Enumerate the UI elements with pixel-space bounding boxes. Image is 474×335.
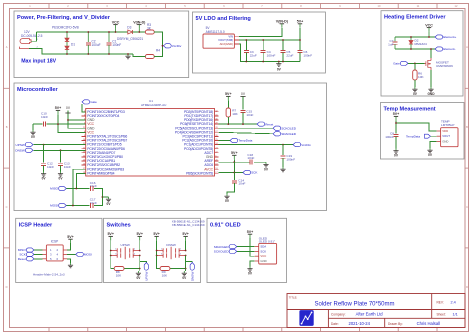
switch DNSW (156, 243, 187, 259)
svg-text:B: B (466, 125, 468, 129)
svg-text:10nF: 10nF (47, 165, 54, 169)
section 0.91" OLED (207, 218, 287, 282)
junction C2 bottom (87, 53, 89, 55)
resistor R6 10K (413, 63, 425, 80)
section Temp Measurement (381, 103, 465, 160)
svg-text:V(IN-D): V(IN-D) (276, 20, 289, 24)
net flag UPSW vertical (140, 262, 149, 281)
junction gnd (127, 53, 129, 55)
sensor U3 TEMP LMT85LP (437, 120, 458, 147)
svg-text:100uF: 100uF (92, 43, 101, 47)
svg-text:10nF: 10nF (238, 182, 245, 186)
capacitor C3 22uF (244, 40, 257, 62)
svg-text:B: B (6, 125, 8, 129)
svg-text:SCK: SCK (260, 249, 266, 253)
junction C1 bottom (108, 53, 110, 55)
power flag 5V+ temp (393, 112, 400, 133)
power flag VCC (112, 20, 120, 32)
net flag MISO (59, 186, 67, 190)
svg-text:0.91" OLED: 0.91" OLED (210, 222, 241, 228)
junction c19 (282, 144, 284, 146)
svg-text:SDA: SDA (260, 245, 266, 249)
svg-text:MM1Z24: MM1Z24 (415, 42, 427, 46)
svg-text:1uF: 1uF (388, 43, 393, 47)
wire D3 to R3 (132, 31, 145, 33)
wire sda row (219, 132, 273, 134)
net flag Element+ (435, 35, 443, 39)
svg-text:5V+: 5V+ (297, 20, 304, 24)
svg-text:UPSW: UPSW (145, 272, 149, 281)
wire DNSW bottom (157, 256, 161, 269)
svg-text:5V+: 5V+ (55, 106, 62, 110)
svg-text:2.4: 2.4 (451, 300, 456, 304)
svg-text:100nF: 100nF (385, 135, 394, 139)
resistor R4 1K (133, 46, 163, 59)
junction C3 top (245, 39, 247, 41)
wire vout (431, 135, 437, 137)
svg-text:PB5(SCK/PCINT5): PB5(SCK/PCINT5) (186, 171, 213, 175)
svg-text:Reset: Reset (265, 122, 273, 126)
svg-text:VOUT: VOUT (442, 134, 450, 138)
junction 0v left (67, 119, 69, 121)
svg-text:Element-: Element- (443, 47, 455, 51)
power flag V(IN-D) (133, 20, 146, 32)
svg-text:1/1: 1/1 (453, 312, 458, 316)
section Microcontroller (14, 83, 327, 211)
wire temp gnd (430, 141, 437, 148)
power flag 5V+ UPSW right (136, 232, 143, 250)
ground c16 c17 0V (102, 197, 111, 206)
svg-text:Gate: Gate (393, 62, 400, 66)
capacitor C8 100nF (385, 131, 398, 148)
svg-text:3: 3 (161, 254, 162, 256)
junction C4 bottom (262, 61, 264, 63)
junction c14 (233, 172, 235, 174)
TVS diode array D1 PESDMC2FD-5VB (52, 26, 79, 54)
ground C12 (43, 172, 45, 174)
svg-text:5V+: 5V+ (136, 232, 143, 236)
capacitor C4 100nF (261, 40, 276, 62)
svg-text:2021-10-24: 2021-10-24 (349, 321, 371, 326)
svg-text:UPSW: UPSW (16, 143, 25, 147)
svg-text:Reset: Reset (18, 257, 26, 261)
svg-text:TempData: TempData (238, 139, 252, 143)
IC U1 ATMEGA328P-AU (86, 99, 215, 176)
connector J3 OLED 0.91 (255, 236, 277, 264)
svg-text:1: 1 (115, 249, 116, 251)
net flag SCKOLED (273, 126, 281, 130)
capacitor C16 10nF (90, 181, 103, 197)
diode D3 DSRYM_C906221 (117, 25, 143, 41)
wire mosi (73, 169, 86, 205)
svg-text:PCINT4/MISO/PB4: PCINT4/MISO/PB4 (87, 171, 114, 175)
wire reset icsp (34, 258, 42, 260)
svg-text:Chris Halsall: Chris Halsall (417, 321, 441, 326)
svg-text:UMW30N06: UMW30N06 (436, 64, 453, 68)
svg-text:100nF: 100nF (286, 158, 295, 162)
svg-text:D: D (6, 285, 8, 289)
junction aref (233, 161, 235, 163)
svg-text:SDAOLED: SDAOLED (214, 245, 230, 249)
svg-text:XB-5B01E-N1_C134169: XB-5B01E-N1_C134169 (172, 223, 205, 227)
ground R6 0V (412, 80, 417, 96)
svg-text:Heating Element Driver: Heating Element Driver (384, 15, 446, 21)
svg-text:SDAOLED: SDAOLED (281, 132, 297, 136)
svg-text:AMS1117-5.0: AMS1117-5.0 (206, 30, 225, 34)
svg-text:5V+: 5V+ (182, 232, 189, 236)
ground UPSW (136, 269, 141, 281)
resistor R3 3K (145, 23, 154, 34)
wire gate to PD3 (82, 104, 86, 112)
svg-text:A: A (466, 45, 468, 49)
section Power, Pre-Filtering, and V_Divider (14, 11, 189, 78)
ground C10 0V (30, 124, 35, 139)
connector J1 12V DC-005-5A-2.5 (20, 30, 43, 49)
svg-text:DNSW: DNSW (166, 243, 176, 247)
svg-text:4: 4 (134, 254, 135, 256)
svg-text:MOSI: MOSI (84, 253, 92, 257)
svg-text:10K: 10K (162, 274, 168, 278)
net flag MISO icsp (26, 248, 34, 252)
junction miso (75, 188, 77, 190)
wire vccdiv row (219, 144, 293, 146)
svg-text:VCC: VCC (260, 254, 266, 258)
wire VCC node (395, 36, 435, 38)
svg-text:DNSW: DNSW (190, 272, 194, 282)
capacitor C2 100uF (86, 32, 101, 54)
switch UPSW (110, 243, 141, 259)
svg-text:Temp Measurement: Temp Measurement (384, 107, 436, 113)
svg-text:A: A (6, 45, 8, 49)
power flag 5V+ reset pullup (225, 92, 232, 108)
svg-text:R4: R4 (156, 49, 160, 53)
svg-text:DSRYM_C906221: DSRYM_C906221 (117, 37, 143, 41)
svg-text:ICSP: ICSP (51, 240, 58, 244)
svg-text:SCK: SCK (251, 171, 258, 175)
junction 5v left (57, 123, 59, 125)
junction C4 top (262, 39, 264, 41)
junction temp 5v (395, 122, 397, 124)
svg-text:2: 2 (180, 249, 181, 251)
junction C3 bottom (245, 61, 247, 63)
IC U1 left pin names (87, 110, 127, 175)
svg-text:VCC: VCC (425, 23, 433, 27)
svg-text:GND: GND (427, 92, 435, 96)
svg-text:DC-005-5A-2.5: DC-005-5A-2.5 (21, 34, 43, 38)
capacitor C7 1uF (388, 37, 397, 49)
ground icsp (67, 259, 73, 268)
svg-text:REV:: REV: (437, 300, 444, 304)
net flag MOSI (59, 203, 67, 207)
svg-text:MOSI: MOSI (50, 204, 58, 208)
junction D2 top (410, 36, 412, 38)
junction vcc node (428, 36, 430, 38)
svg-text:C: C (6, 205, 8, 209)
svg-text:Switches: Switches (107, 222, 131, 228)
svg-text:5V+: 5V+ (231, 151, 238, 155)
ground oled 0V (247, 261, 254, 276)
IC U1 pin numbers left (83, 110, 85, 173)
svg-text:Company:: Company: (331, 312, 346, 316)
resistor R8 10K (114, 267, 124, 278)
zener diode D2 MM1Z24 (409, 37, 427, 49)
junction c16 c17 rail (102, 196, 104, 198)
wire UPSW bottom (111, 256, 115, 269)
svg-text:Header-Male-2.54_2x3: Header-Male-2.54_2x3 (33, 272, 65, 276)
svg-text:VDD: VDD (442, 129, 448, 133)
svg-text:10nF: 10nF (64, 165, 71, 169)
net flag Element- (435, 47, 443, 51)
junction dnsw (60, 149, 62, 151)
power flag 5V+ icsp (67, 235, 74, 250)
capacitor C14 10nF (227, 173, 246, 195)
wire ADJ to gnd rail (239, 44, 300, 62)
svg-text:22uF: 22uF (250, 53, 257, 57)
svg-text:1: 1 (161, 249, 162, 251)
wire sck row (233, 162, 235, 172)
title block outline (287, 294, 465, 328)
junction D1 bottom (66, 53, 68, 55)
junction gnd ldo (278, 61, 280, 63)
svg-text:10K: 10K (232, 112, 238, 116)
capacitor C17 10nF (90, 197, 103, 208)
svg-text:4: 4 (180, 254, 181, 256)
section ICSP Header (16, 218, 102, 282)
svg-text:TempData: TempData (406, 135, 420, 139)
wire 5V+ to VCC pins (58, 114, 86, 132)
ground C8 (395, 149, 397, 151)
junction drain node (410, 48, 412, 50)
svg-text:Microcontroller: Microcontroller (17, 87, 59, 93)
junction C2 top (87, 31, 89, 33)
ground block1 (127, 54, 129, 56)
wire dnsw (34, 149, 86, 151)
svg-text:MISO: MISO (18, 248, 27, 252)
wire R3 to VccDiv node (154, 32, 162, 46)
wire upsw (34, 144, 86, 146)
junction r7 reset (227, 123, 229, 125)
svg-text:100nF: 100nF (112, 43, 121, 47)
power flag 5V+ ldo (297, 20, 304, 28)
net flag SCKOLED oled (214, 249, 255, 253)
svg-text:VccDiv: VccDiv (172, 44, 182, 48)
net flag Gate mcu (82, 100, 90, 104)
junction C1 top (108, 31, 110, 33)
wire tempdata row (219, 140, 230, 142)
svg-text:DNSW: DNSW (15, 149, 25, 153)
junction mosi (72, 205, 74, 207)
junction c15 reset (242, 123, 244, 125)
wire VOUT rail (239, 39, 300, 41)
power flag V(IN-D) ldo (276, 20, 289, 28)
svg-text:VccDiv: VccDiv (301, 143, 311, 147)
ground DNSW (182, 269, 187, 281)
transistor Q1 MOSFET UMW30N06 (425, 58, 454, 70)
svg-text:SCKOLED: SCKOLED (281, 126, 297, 130)
svg-text:3: 3 (115, 254, 116, 256)
ground 0V mcu-left (65, 106, 70, 120)
header J2 ICSP (42, 240, 67, 261)
section Heating Element Driver (381, 11, 463, 96)
svg-text:TITLE:: TITLE: (289, 296, 298, 300)
net flag Reset (257, 122, 265, 126)
svg-text:2: 2 (134, 249, 135, 251)
power flag 5V+ DNSW right (182, 232, 189, 250)
section Switches (104, 218, 201, 282)
net flag TempData (230, 138, 238, 142)
power flag 5V+ mcu-left (55, 106, 62, 114)
wire drain node (395, 48, 435, 50)
svg-text:5V+: 5V+ (247, 230, 254, 234)
wire VIN (239, 28, 282, 37)
svg-text:MISO: MISO (50, 187, 59, 191)
net flag Gate heater (400, 61, 408, 65)
svg-text:V(IN-D): V(IN-D) (133, 20, 146, 24)
svg-text:5V LDO and Filtering: 5V LDO and Filtering (196, 16, 252, 22)
wire aref row (219, 161, 250, 163)
svg-text:5V+: 5V+ (153, 232, 160, 236)
IC U1 left pin stubs (82, 112, 86, 174)
svg-text:SCK: SCK (19, 253, 26, 257)
net flag VccDiv (164, 44, 172, 48)
wire sck icsp (34, 253, 42, 255)
power flag 5V+ oled (247, 230, 255, 256)
svg-text:10nF: 10nF (41, 115, 48, 119)
svg-text:After Earth Ltd: After Earth Ltd (356, 311, 384, 316)
capacitor C18 10nF (247, 153, 254, 165)
ground C14 (226, 194, 228, 196)
capacitor C13 10nF (58, 150, 71, 171)
svg-text:10nF: 10nF (246, 113, 253, 117)
IC U1 right pin stubs (215, 112, 219, 174)
svg-text:100nF: 100nF (303, 53, 312, 57)
capacitor C15 10nF (241, 109, 254, 124)
svg-text:PESDMC2FD-5VB: PESDMC2FD-5VB (52, 26, 79, 30)
svg-text:VCC: VCC (112, 20, 120, 24)
ground temp (429, 148, 431, 150)
svg-text:Solder Reflow Plate 70*50mm: Solder Reflow Plate 70*50mm (314, 301, 394, 307)
net flag DNSW mcu (25, 148, 33, 152)
svg-text:UPSW: UPSW (121, 243, 130, 247)
svg-text:C: C (466, 205, 468, 209)
svg-text:5V+: 5V+ (67, 235, 74, 239)
svg-text:D: D (466, 285, 468, 289)
junction UPSW r (139, 268, 141, 270)
ground C13 (60, 172, 62, 174)
wire gate (408, 62, 425, 64)
net flag SDAOLED (273, 132, 281, 136)
capacitor C10 10nF (33, 111, 58, 126)
junction gate-R6 (414, 63, 416, 65)
IC U1 pin numbers right (215, 110, 217, 173)
resistor R7 10K (226, 108, 239, 124)
capacitor C19 100nF (281, 145, 296, 167)
junction C5 bottom (282, 61, 284, 63)
capacitor C5 22uF (281, 40, 294, 62)
power flag VCC heater (425, 23, 433, 37)
svg-text:D3: D3 (127, 25, 131, 29)
net flag SCK (243, 170, 251, 174)
junction C5 top (282, 39, 284, 41)
net flag SCK icsp (26, 252, 34, 256)
svg-text:10nF: 10nF (247, 156, 254, 160)
svg-text:Sheet:: Sheet: (437, 312, 446, 316)
svg-text:GND: GND (260, 259, 266, 263)
wire reset row (219, 123, 257, 125)
wire jack to rails (31, 32, 36, 41)
power flag 5V+ aref (231, 151, 238, 162)
svg-text:LMT85LP: LMT85LP (441, 123, 454, 127)
svg-text:5V+: 5V+ (225, 92, 232, 96)
svg-text:2: 2 (37, 46, 38, 48)
IC U1 right pin names (175, 110, 214, 175)
svg-text:Element+: Element+ (443, 35, 456, 39)
svg-text:5V+: 5V+ (393, 112, 400, 116)
wire scl row (219, 127, 273, 129)
net flag UPSW mcu (25, 143, 33, 147)
ground 0V c15 (240, 92, 245, 109)
svg-text:ADJ(GND): ADJ(GND) (220, 42, 233, 46)
logo (299, 310, 313, 326)
regulator U2 AMS1117-5.0 (203, 26, 239, 48)
ground ldo (278, 62, 280, 64)
power flag 5V+ DNSW left (153, 232, 160, 255)
ground C19 (282, 167, 284, 169)
junction VccDiv node (162, 45, 164, 47)
ground mosfet source (427, 70, 435, 96)
capacitor C1 100nF (107, 32, 122, 54)
net flag TempData temp (406, 134, 431, 138)
capacitor C6 100nF (298, 40, 313, 62)
net flag MOSI icsp (67, 252, 92, 256)
net flag DNSW vertical (186, 262, 195, 282)
junction VCC (115, 31, 117, 33)
capacitor C12 10nF (41, 145, 54, 172)
svg-text:D1: D1 (71, 42, 75, 46)
junction DNSW r (185, 268, 187, 270)
junction VIN-D (138, 31, 140, 33)
svg-text:100nF: 100nF (267, 53, 276, 57)
svg-text:ICSP Header: ICSP Header (19, 222, 53, 228)
net flag VccDiv mcu (293, 143, 301, 147)
junction D1 top (66, 31, 68, 33)
svg-text:SCKOLED: SCKOLED (214, 250, 230, 254)
ground C18 0V (265, 162, 267, 164)
svg-text:Date:: Date: (331, 322, 339, 326)
svg-text:10K: 10K (116, 274, 122, 278)
svg-text:ATMEGA328P-AU: ATMEGA328P-AU (141, 103, 166, 107)
svg-text:Drawn By:: Drawn By: (388, 322, 403, 326)
net flag Reset icsp (26, 257, 34, 261)
svg-text:Power, Pre-Filtering, and V_Di: Power, Pre-Filtering, and V_Divider (17, 15, 111, 21)
svg-text:10K: 10K (418, 75, 424, 79)
net flag SDAOLED oled (214, 245, 255, 249)
svg-text:22uF: 22uF (286, 53, 293, 57)
wire miso icsp (34, 249, 42, 251)
resistor R9 10K (160, 267, 170, 278)
junction upsw (43, 144, 45, 146)
junction C6 top (299, 39, 301, 41)
wire miso (76, 173, 85, 188)
svg-text:Gate: Gate (90, 100, 97, 104)
svg-text:Max input 18V: Max input 18V (21, 59, 56, 65)
svg-text:GND: GND (442, 139, 448, 143)
wire temp vdd (396, 123, 437, 131)
section 5V LDO and Filtering (193, 12, 326, 73)
power flag 5V+ UPSW left (107, 232, 114, 255)
wire 0V to GND pins (68, 119, 86, 121)
svg-text:5V+: 5V+ (107, 232, 114, 236)
